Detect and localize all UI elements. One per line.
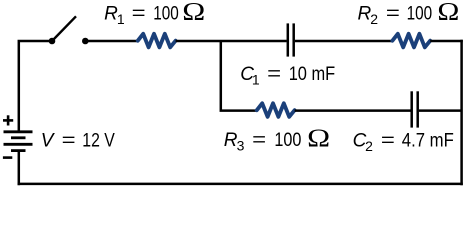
svg-text:R1=100Ω: R1=100Ω — [104, 0, 205, 27]
svg-text:V=12 V: V=12 V — [41, 131, 115, 152]
wire: R2 to top-right corner — [430, 40, 463, 43]
resistor R2 — [392, 34, 430, 48]
wire: bottom horizontal — [18, 183, 463, 186]
svg-text:R3=100Ω: R3=100Ω — [224, 125, 330, 154]
battery V plates — [4, 132, 33, 151]
switch S (open) — [49, 16, 89, 44]
capacitor C1 — [288, 23, 294, 56]
wire: switch right terminal to R1 — [85, 40, 138, 43]
resistor R1 — [138, 34, 176, 48]
resistor R3 — [257, 103, 295, 117]
wire: right side vertical — [460, 40, 463, 185]
capacitor C2 — [412, 91, 418, 127]
wire: left side top corner (battery + to switch) — [19, 41, 52, 132]
wire: C2 right plate to right side — [419, 109, 462, 112]
wire: node A vertical drop to middle branch — [221, 41, 257, 111]
battery - sign — [3, 156, 12, 159]
wire: R3 to C2 left plate — [295, 109, 411, 112]
wire: C1 right plate to R2 — [295, 40, 393, 43]
svg-text:R2=100Ω: R2=100Ω — [358, 0, 460, 27]
svg-text:C1=10 mF: C1=10 mF — [240, 64, 335, 88]
wire: R1 to C1 left plate (through node A) — [176, 40, 287, 43]
wire: left side below battery — [18, 151, 21, 186]
svg-text:C2=4.7 mF: C2=4.7 mF — [353, 130, 454, 154]
battery + sign — [3, 115, 13, 125]
